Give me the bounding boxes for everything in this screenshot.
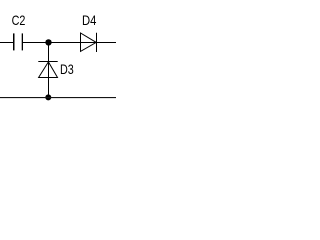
svg-text:C2: C2 xyxy=(12,12,26,28)
wire bottom rail xyxy=(0,97,116,99)
wire top-left segment xyxy=(0,42,14,44)
capacitor C2 xyxy=(14,33,23,50)
diode D4 xyxy=(81,33,97,52)
wire top-middle segment xyxy=(22,42,116,44)
wire vertical branch xyxy=(48,43,50,98)
node junction top xyxy=(45,39,51,45)
diode D3 xyxy=(38,62,57,78)
svg-text:D4: D4 xyxy=(82,12,97,28)
svg-text:D3: D3 xyxy=(60,61,74,77)
node junction bottom xyxy=(45,94,51,100)
